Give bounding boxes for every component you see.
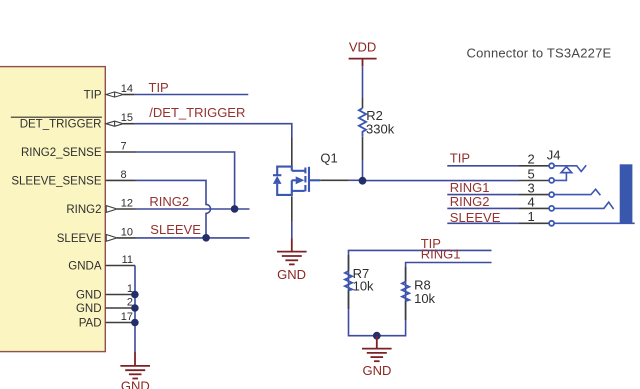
svg-text:RING2: RING2: [149, 194, 189, 209]
svg-text:RING2: RING2: [450, 194, 490, 209]
svg-text:5: 5: [527, 166, 534, 181]
svg-text:TIP: TIP: [149, 80, 169, 95]
svg-text:RING2: RING2: [66, 204, 101, 216]
svg-text:GND: GND: [76, 303, 102, 315]
svg-text:10k: 10k: [414, 291, 435, 306]
svg-text:3: 3: [527, 181, 534, 196]
svg-text:J4: J4: [547, 147, 561, 162]
svg-text:SLEEVE_SENSE: SLEEVE_SENSE: [11, 175, 101, 187]
svg-text:PAD: PAD: [79, 317, 102, 329]
svg-text:10k: 10k: [353, 279, 374, 294]
svg-text:SLEEVE: SLEEVE: [450, 210, 501, 225]
svg-text:1: 1: [527, 209, 534, 224]
svg-text:2: 2: [527, 152, 534, 167]
svg-text:VDD: VDD: [349, 39, 376, 54]
svg-text:7: 7: [121, 140, 127, 152]
svg-text:RING1: RING1: [450, 180, 490, 195]
svg-text:14: 14: [121, 83, 133, 95]
svg-text:SLEEVE: SLEEVE: [57, 233, 102, 245]
svg-text:12: 12: [121, 197, 133, 209]
svg-text:Connector to TS3A227E: Connector to TS3A227E: [467, 46, 612, 61]
svg-text:GNDA: GNDA: [68, 260, 102, 272]
svg-text:GND: GND: [76, 289, 102, 301]
svg-text:15: 15: [121, 112, 133, 124]
svg-text:4: 4: [527, 194, 534, 209]
svg-text:RING1: RING1: [421, 247, 461, 262]
svg-text:TIP: TIP: [450, 151, 470, 166]
svg-text:SLEEVE: SLEEVE: [150, 222, 201, 237]
svg-text:8: 8: [121, 169, 127, 181]
svg-text:10: 10: [121, 226, 133, 238]
svg-text:DET_TRIGGER: DET_TRIGGER: [20, 119, 102, 131]
svg-text:17: 17: [121, 311, 133, 323]
svg-text:330k: 330k: [366, 121, 395, 136]
svg-text:/DET_TRIGGER: /DET_TRIGGER: [149, 105, 245, 120]
svg-text:11: 11: [122, 254, 133, 266]
svg-text:GND: GND: [363, 363, 392, 378]
svg-text:Q1: Q1: [320, 151, 337, 166]
svg-text:GND: GND: [121, 379, 150, 389]
svg-text:TIP: TIP: [84, 89, 102, 101]
svg-text:GND: GND: [277, 267, 306, 282]
svg-text:RING2_SENSE: RING2_SENSE: [21, 147, 102, 159]
